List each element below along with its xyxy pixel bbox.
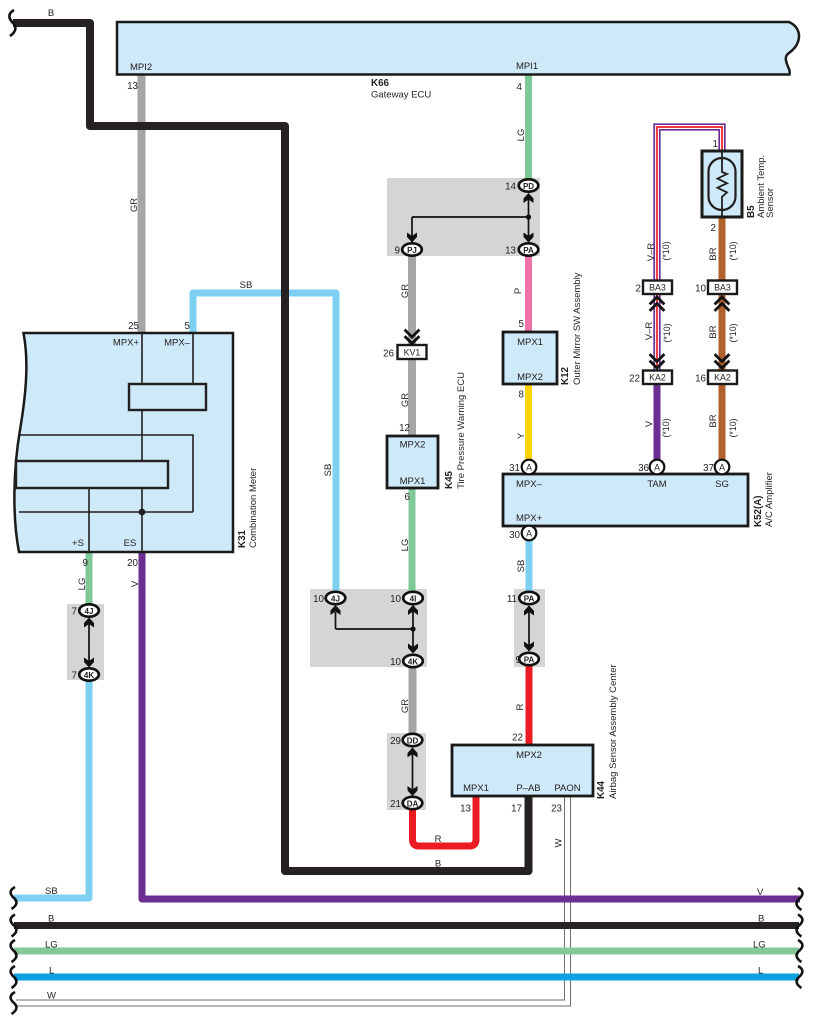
wire V from K31 pin 20 (ES) to right edge bus <box>142 552 800 899</box>
svg-text:23: 23 <box>551 804 562 815</box>
svg-text:A: A <box>526 529 532 539</box>
junction block gray box 4J/4I/4K middle <box>310 589 427 667</box>
connector circle A pin 30 <box>522 526 537 541</box>
connector oval PJ <box>395 243 422 256</box>
svg-text:SB: SB <box>323 464 334 477</box>
wire LG from K45 pin 6 to connector 4I <box>409 488 416 592</box>
svg-text:L: L <box>758 966 763 977</box>
wire B black main path from K44 P-AB pin 17 around to top left <box>13 23 529 871</box>
svg-text:K31: K31 <box>237 529 248 548</box>
chevron up below BA3 pin 2 <box>650 297 665 311</box>
svg-text:MPX+: MPX+ <box>516 513 543 524</box>
svg-text:R: R <box>515 703 526 710</box>
svg-text:Y: Y <box>516 432 527 439</box>
wire W white from K44 PAON pin 23 to left edge <box>16 796 568 1003</box>
K44 Airbag Sensor Assembly Center box <box>452 745 593 796</box>
Gateway ECU K66 box <box>117 22 799 75</box>
svg-text:BA3: BA3 <box>649 283 666 293</box>
svg-text:DD: DD <box>407 737 419 746</box>
svg-text:PA: PA <box>524 656 535 665</box>
svg-text:Combination Meter: Combination Meter <box>248 468 259 548</box>
K45 Tire Pressure Warning ECU box <box>387 436 438 488</box>
svg-text:4: 4 <box>517 82 523 93</box>
K31 internal component box 2 <box>16 461 168 488</box>
svg-text:V: V <box>757 887 764 898</box>
wire V-R from BA3 pin 2 up over to sensor pin 1 <box>654 124 725 282</box>
svg-text:LG: LG <box>77 578 88 591</box>
connector oval PA 13 <box>505 243 538 256</box>
svg-text:5: 5 <box>519 319 525 330</box>
JB4 internal arrows PA/PA <box>524 606 534 652</box>
bus L bottom <box>14 974 799 981</box>
svg-text:K52(A): K52(A) <box>753 495 764 527</box>
continuation brace B bottom left <box>11 915 17 937</box>
svg-text:PA: PA <box>523 246 534 255</box>
wire LG from K31 pin 9 (+S) to connector 4J left <box>86 552 93 606</box>
connector oval DD <box>390 734 422 747</box>
chevron up below BA3 pin 10 <box>715 297 730 311</box>
svg-text:14: 14 <box>505 182 516 193</box>
svg-text:TAM: TAM <box>647 479 666 490</box>
svg-text:4J: 4J <box>331 595 340 604</box>
svg-text:K44: K44 <box>596 780 607 799</box>
svg-text:LG: LG <box>516 129 527 142</box>
svg-text:4I: 4I <box>410 595 417 604</box>
svg-text:16: 16 <box>695 374 706 385</box>
svg-text:5: 5 <box>185 321 191 332</box>
JB3 internal arrows 4J/4I/4K middle <box>331 605 419 654</box>
svg-text:4J: 4J <box>85 607 94 616</box>
svg-text:+S: +S <box>72 538 84 549</box>
wire GR from KV1 to K45 pin 12 <box>408 358 416 436</box>
svg-text:MPX–: MPX– <box>164 338 191 349</box>
svg-text:LG: LG <box>400 539 411 552</box>
svg-text:7: 7 <box>72 671 77 682</box>
K31 internal line from box1 to ES <box>141 410 143 552</box>
svg-text:W: W <box>47 991 56 1002</box>
connector oval PA 9 <box>516 653 539 666</box>
JB5 internal arrows DD/DA <box>408 748 418 797</box>
JB1 internal arrows PD to PJ/PA <box>407 193 534 243</box>
svg-text:ES: ES <box>124 538 137 549</box>
svg-text:13: 13 <box>127 81 138 92</box>
junction block gray box 4J/4K left <box>67 604 104 680</box>
chevron down above KV1 <box>405 330 420 344</box>
svg-text:29: 29 <box>390 736 401 747</box>
svg-text:A: A <box>719 463 725 473</box>
continuation brace V right <box>797 888 803 910</box>
svg-text:R: R <box>435 834 442 845</box>
chevron down above KA2 pin 22 <box>650 354 665 368</box>
connector circle A pin 37 <box>715 460 730 475</box>
connector rect KA2 pin 16 <box>708 371 737 385</box>
wire BR from BA3 pin 10 to KA2 pin 16 <box>719 294 726 370</box>
svg-text:KV1: KV1 <box>404 348 421 358</box>
B5 Ambient Temp. Sensor <box>702 151 742 217</box>
K31 internal line horizontal B <box>19 511 193 513</box>
svg-text:MPI1: MPI1 <box>516 61 538 72</box>
svg-text:GR: GR <box>400 284 411 298</box>
connector rect BA3 pin 10 <box>708 281 737 295</box>
connector oval 4I <box>390 592 423 605</box>
svg-text:9: 9 <box>395 246 400 257</box>
junction block gray box DD/DA <box>387 733 426 810</box>
svg-text:B: B <box>48 914 54 925</box>
K31 internal component box 1 <box>129 384 206 410</box>
wire SB from A/C amplifier pin 30 to connector PA 11 <box>526 540 533 592</box>
continuation brace L bottom left <box>11 966 17 988</box>
continuation brace LG bottom left <box>11 940 17 962</box>
svg-text:SG: SG <box>715 479 729 490</box>
connector oval 4J left <box>72 604 99 617</box>
svg-text:SB: SB <box>45 886 58 897</box>
chevron down above KA2 pin 16 <box>715 354 730 368</box>
continuation brace SB bottom left <box>11 887 17 909</box>
svg-text:9: 9 <box>516 655 521 666</box>
continuation brace B top left <box>9 10 15 36</box>
svg-text:13: 13 <box>460 804 471 815</box>
svg-text:4K: 4K <box>408 658 418 667</box>
svg-text:MPX1: MPX1 <box>517 337 543 348</box>
svg-text:L: L <box>49 966 54 977</box>
bus LG bottom <box>14 948 799 955</box>
connector oval 4K left <box>72 668 99 681</box>
svg-text:Sensor: Sensor <box>765 188 776 218</box>
continuation brace B right <box>797 915 803 937</box>
svg-text:V: V <box>644 420 655 427</box>
svg-text:Tire Pressure Warning ECU: Tire Pressure Warning ECU <box>456 372 467 489</box>
connector rect BA3 pin 2 <box>643 281 672 295</box>
svg-text:Outer Mirror SW Assembly: Outer Mirror SW Assembly <box>572 272 583 385</box>
svg-text:17: 17 <box>511 804 522 815</box>
svg-text:6: 6 <box>405 492 411 503</box>
svg-text:MPX–: MPX– <box>516 479 543 490</box>
svg-text:KA2: KA2 <box>714 373 731 383</box>
connector oval PA 11 <box>507 592 539 605</box>
svg-text:GR: GR <box>400 699 411 713</box>
connector rect KV1 <box>398 345 427 359</box>
svg-text:PD: PD <box>523 182 534 191</box>
K31 internal line MPX- <box>192 333 194 384</box>
svg-text:31: 31 <box>509 463 520 474</box>
svg-text:K45: K45 <box>444 470 455 489</box>
svg-text:BR: BR <box>708 247 719 260</box>
svg-text:DA: DA <box>407 800 419 809</box>
svg-text:LG: LG <box>45 940 58 951</box>
continuation brace LG right <box>797 940 803 962</box>
svg-text:MPX2: MPX2 <box>516 750 542 761</box>
svg-text:SB: SB <box>516 560 527 573</box>
wire V-R from KA2 pin 22 chevrons up to BA3 pin 2 <box>654 294 660 370</box>
svg-text:(*10): (*10) <box>728 418 738 437</box>
wire BR from sensor pin 2 to BA3 pin 10 <box>719 216 726 282</box>
svg-text:GR: GR <box>129 198 140 212</box>
svg-text:12: 12 <box>399 423 410 434</box>
wire SB from K31 pin 5 to connector 4J <box>193 293 336 592</box>
svg-text:10: 10 <box>695 284 706 295</box>
svg-text:MPX+: MPX+ <box>113 338 140 349</box>
svg-text:11: 11 <box>507 594 517 605</box>
svg-text:10: 10 <box>390 594 401 605</box>
wire R from connector DA to K44 pin 13 <box>413 796 477 846</box>
K31 internal line MPX+ <box>141 333 143 384</box>
svg-text:2: 2 <box>711 223 716 234</box>
svg-text:MPX1: MPX1 <box>463 783 489 794</box>
K31 internal junction dot <box>139 509 146 516</box>
svg-text:BR: BR <box>708 325 719 338</box>
wire GR from connector PJ to KV1 <box>408 255 416 345</box>
svg-text:LG: LG <box>753 940 766 951</box>
svg-text:9: 9 <box>83 558 88 569</box>
svg-text:30: 30 <box>509 530 520 541</box>
bus B bottom <box>14 922 799 929</box>
junction block gray box PA/PA <box>514 589 545 667</box>
svg-text:K12: K12 <box>560 366 571 385</box>
svg-text:(*10): (*10) <box>728 323 738 342</box>
svg-text:KA2: KA2 <box>649 373 666 383</box>
wire BR from KA2 pin 16 to A/C amplifier pin 37 <box>719 384 726 461</box>
connector oval 4J middle <box>313 592 345 605</box>
svg-text:MPX2: MPX2 <box>517 372 543 383</box>
svg-text:B: B <box>48 8 54 19</box>
svg-text:(*10): (*10) <box>661 241 671 260</box>
wire R from connector PA 9 to K44 pin 22 <box>526 664 533 746</box>
svg-text:13: 13 <box>505 246 516 257</box>
svg-text:10: 10 <box>313 594 324 605</box>
K31 internal line +S <box>88 488 90 552</box>
svg-text:MPX2: MPX2 <box>400 440 426 451</box>
svg-text:BR: BR <box>708 414 719 427</box>
wire Y from K12 pin 8 to A/C amplifier pin 31 <box>525 384 532 461</box>
K12 Outer Mirror SW Assembly box <box>503 332 557 384</box>
svg-text:V–R: V–R <box>644 322 655 341</box>
wire LG from K66 pin 4 to connector PD <box>525 74 532 180</box>
svg-text:2: 2 <box>636 284 641 295</box>
connector rect KA2 pin 22 <box>643 371 672 385</box>
svg-text:A/C Amplifier: A/C Amplifier <box>764 472 775 527</box>
connector oval DA <box>390 797 422 810</box>
svg-text:Gateway ECU: Gateway ECU <box>371 90 431 101</box>
connector circle A pin 36 <box>650 460 665 475</box>
svg-text:10: 10 <box>390 657 401 668</box>
wire GR from K66 pin 13 to K31 pin 25 <box>138 74 146 333</box>
wire P from connector PA to K12 pin 5 <box>525 255 532 333</box>
svg-text:(*10): (*10) <box>662 323 672 342</box>
connector oval 4K middle <box>390 655 423 668</box>
svg-text:K66: K66 <box>371 78 390 89</box>
svg-text:7: 7 <box>72 607 77 618</box>
wire V from KA2 pin 22 to A/C amplifier pin 36 <box>654 384 661 461</box>
svg-text:SB: SB <box>240 280 253 291</box>
continuation brace W bottom left <box>11 992 17 1014</box>
svg-text:(*10): (*10) <box>728 241 738 260</box>
svg-text:B: B <box>758 914 764 925</box>
connector oval PD <box>505 179 538 192</box>
continuation brace L right <box>797 966 803 988</box>
svg-text:PJ: PJ <box>407 246 417 255</box>
connector circle A pin 31 <box>522 460 537 475</box>
K31 internal line horizontal A <box>20 435 193 512</box>
svg-text:V: V <box>130 580 141 587</box>
svg-text:22: 22 <box>629 374 640 385</box>
svg-text:BA3: BA3 <box>714 283 731 293</box>
svg-text:4K: 4K <box>84 671 94 680</box>
svg-text:26: 26 <box>383 349 394 360</box>
svg-text:1: 1 <box>713 139 718 150</box>
junction block gray box PD/PJ/PA <box>387 178 540 256</box>
svg-text:37: 37 <box>703 463 714 474</box>
svg-text:PA: PA <box>524 595 535 604</box>
svg-text:A: A <box>526 463 532 473</box>
svg-text:B: B <box>435 859 441 870</box>
wire GR from connector 4K to connector DD <box>409 666 417 736</box>
svg-text:Airbag Sensor Assembly Center: Airbag Sensor Assembly Center <box>608 664 619 799</box>
svg-text:36: 36 <box>638 463 649 474</box>
K52(A) A/C Amplifier box <box>503 474 748 526</box>
svg-text:PAON: PAON <box>554 783 580 794</box>
svg-text:W: W <box>554 838 565 847</box>
svg-text:(*10): (*10) <box>661 418 671 437</box>
wire SB from connector 4K left to left edge bus <box>14 671 89 898</box>
svg-text:P: P <box>513 288 524 294</box>
JB2 internal arrows 4J/4K left <box>84 618 94 668</box>
svg-text:V–R: V–R <box>646 243 657 262</box>
svg-text:21: 21 <box>390 799 401 810</box>
svg-text:MPI2: MPI2 <box>130 62 152 73</box>
Combination Meter K31 box <box>14 333 233 552</box>
svg-text:MPX1: MPX1 <box>400 476 426 487</box>
svg-text:8: 8 <box>519 390 525 401</box>
svg-text:22: 22 <box>512 733 523 744</box>
svg-text:20: 20 <box>127 558 138 569</box>
svg-text:GR: GR <box>400 393 411 407</box>
svg-text:P–AB: P–AB <box>516 783 540 794</box>
svg-text:A: A <box>654 463 660 473</box>
svg-text:25: 25 <box>128 321 139 332</box>
